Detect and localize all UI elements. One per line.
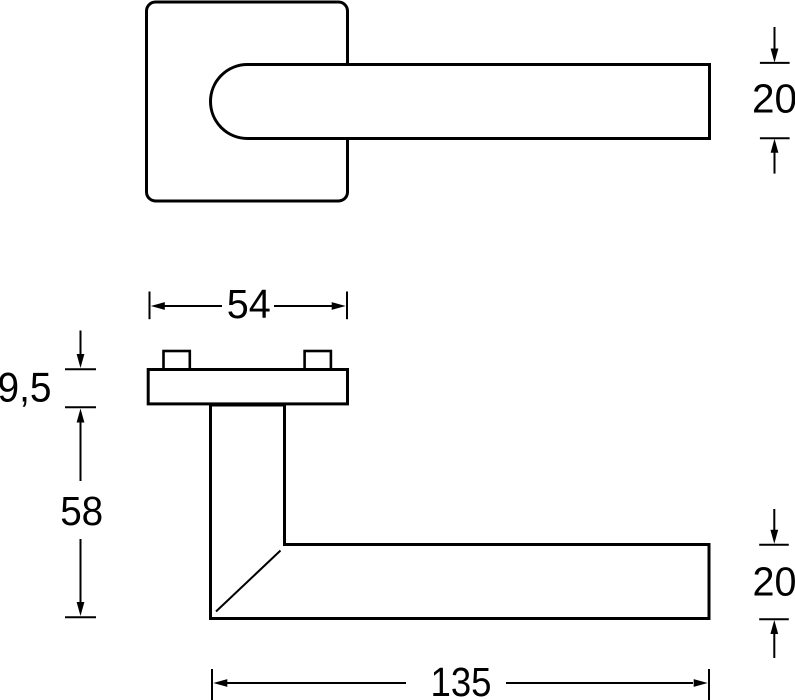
svg-text:9,5: 9,5 (0, 363, 52, 410)
dimension 54 (rosette width) (150, 281, 348, 327)
rosette side view plate (148, 370, 347, 404)
svg-text:20: 20 (752, 76, 795, 122)
dimension 20 (side view bar thickness) (753, 509, 795, 658)
dimension 9,5 (plate thickness) (0, 331, 96, 411)
rosette front view (rounded square) (147, 2, 348, 201)
svg-text:58: 58 (60, 488, 103, 534)
svg-text:54: 54 (227, 281, 271, 327)
dimension 135 (lever length) (212, 659, 709, 700)
lever handle front view (stadium bar) (211, 65, 710, 139)
lever handle side view (L profile) (211, 405, 710, 619)
screw bump left (164, 351, 190, 370)
dimension 58 (grip depth) (60, 409, 103, 618)
miter line of L joint (216, 551, 281, 612)
svg-text:135: 135 (431, 659, 492, 700)
svg-text:20: 20 (753, 559, 795, 605)
dimension 20 (front view bar thickness) (752, 27, 795, 174)
screw bump right (305, 351, 331, 370)
